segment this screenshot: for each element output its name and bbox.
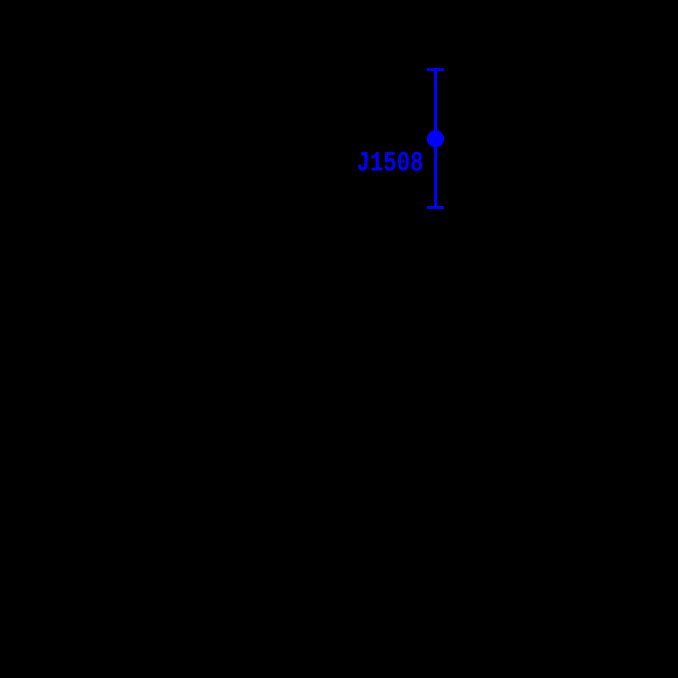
svg-text:J1508: J1508 xyxy=(357,149,424,180)
errorbar vertical line xyxy=(434,68,437,209)
data point marker xyxy=(427,130,444,147)
errorbar bottom cap xyxy=(427,206,444,209)
errorbar top cap xyxy=(427,68,444,71)
